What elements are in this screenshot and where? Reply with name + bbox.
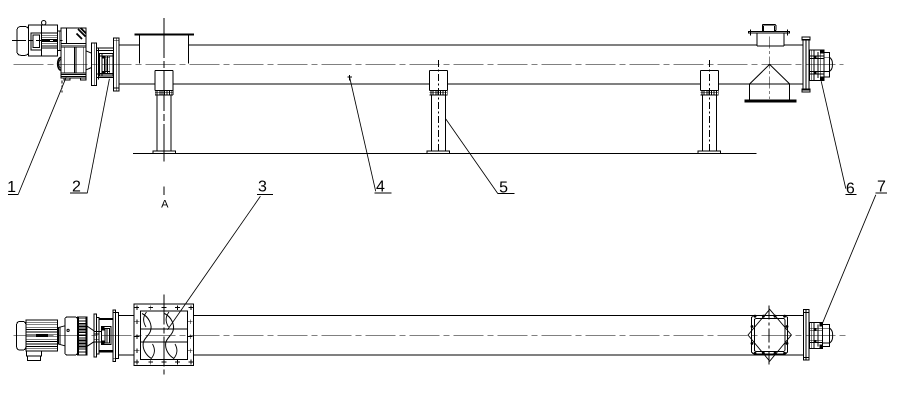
svg-text:1: 1 (7, 179, 16, 196)
svg-text:A: A (161, 199, 169, 211)
svg-text:3: 3 (258, 179, 267, 196)
